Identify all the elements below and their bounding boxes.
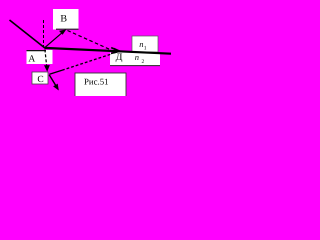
- svg-text:2: 2: [142, 59, 145, 65]
- arrowhead at B: [59, 29, 66, 34]
- incident ray: [10, 20, 45, 48]
- ray from C corner toward D: solid then dashed: [49, 70, 62, 74]
- figure: refraction at interface, Рис.51: [0, 0, 171, 96]
- reflected ray to B: [45, 33, 62, 48]
- short arrow from C corner down-right: [49, 75, 55, 85]
- ray down to C (dashed): [45, 49, 47, 65]
- caption box: [75, 73, 126, 98]
- label box A: [27, 50, 53, 64]
- normal (dashed) above interface: [43, 20, 45, 47]
- svg-text:А: А: [28, 54, 35, 64]
- label box B: [53, 9, 79, 30]
- svg-text:Рис.51: Рис.51: [84, 76, 109, 86]
- big open arrowhead at D: [111, 48, 120, 54]
- background: [0, 0, 171, 96]
- label box n1: [132, 36, 158, 52]
- svg-text:n: n: [135, 52, 139, 62]
- svg-text:Д: Д: [116, 52, 123, 63]
- arrowhead of short ray: [53, 84, 59, 91]
- interface line n1/n2: [45, 48, 172, 54]
- arrowhead at C: [44, 65, 50, 72]
- dashed ray from B corner to D: [68, 31, 111, 50]
- label box D with n2: [110, 52, 160, 66]
- label box C: [32, 72, 48, 85]
- svg-text:С: С: [37, 75, 43, 85]
- svg-text:В: В: [60, 13, 67, 24]
- svg-text:1: 1: [144, 46, 147, 52]
